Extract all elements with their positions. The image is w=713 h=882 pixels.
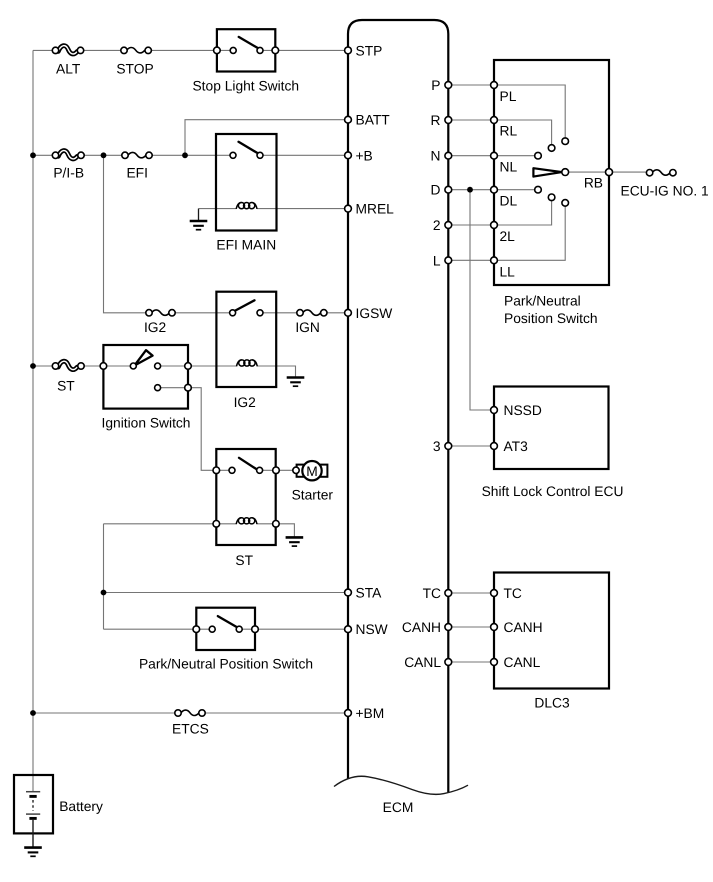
svg-text:Starter: Starter xyxy=(292,488,334,503)
fuse terminals IGN xyxy=(297,310,303,316)
wire: RB row from rotor to ECU-IG fuse xyxy=(569,171,647,173)
svg-text:ETCS: ETCS xyxy=(172,722,209,737)
svg-text:P: P xyxy=(431,78,440,93)
wire: ST relay coil row to ground xyxy=(104,524,295,538)
svg-text:NL: NL xyxy=(500,160,518,175)
wire: STA vertical and STA row to ECM xyxy=(104,524,349,629)
svg-text:IG2: IG2 xyxy=(144,320,166,335)
park/neutral position switch box (NSW) xyxy=(196,608,255,650)
svg-text:STA: STA xyxy=(356,586,383,601)
ground: ST relay coil xyxy=(286,537,304,546)
wire: P row and PL stub xyxy=(448,85,565,138)
fusible link ALT xyxy=(58,46,77,54)
svg-text:STOP: STOP xyxy=(116,62,153,77)
svg-text:CANH: CANH xyxy=(402,620,441,635)
svg-text:TC: TC xyxy=(423,586,441,601)
ground: IG2 relay coil xyxy=(287,378,305,387)
fuse terminals ECU-IG NO. 1 xyxy=(646,170,652,176)
ST relay terminals xyxy=(213,467,220,474)
svg-text:STP: STP xyxy=(356,43,383,58)
svg-text:L: L xyxy=(433,253,441,268)
svg-text:Park/Neutral: Park/Neutral xyxy=(504,293,581,308)
rotary selector contacts PL RL NL DL 2L LL and pivot xyxy=(562,138,569,145)
wire: NSW row through park/neutral position switch xyxy=(104,628,349,630)
starter motor brushes xyxy=(297,465,304,477)
svg-text:+B: +B xyxy=(356,148,373,163)
wire: L row and LL stub xyxy=(448,206,565,260)
wire: D junction down to NSSD xyxy=(470,190,494,410)
fusible link ST xyxy=(58,361,77,369)
park/neutral position switch terminals (NSW) xyxy=(193,626,200,633)
wire: 2 row and 2L stub xyxy=(448,201,551,226)
wire: AT3 row xyxy=(448,445,494,447)
wire: MREL coil row xyxy=(199,208,349,210)
junction node: +B / IG2 branch xyxy=(101,152,107,158)
svg-text:P/I-B: P/I-B xyxy=(53,166,84,181)
svg-text:N: N xyxy=(431,149,441,164)
wire: D row to DL contact xyxy=(448,189,538,191)
svg-text:ST: ST xyxy=(235,553,253,568)
svg-text:Position Switch: Position Switch xyxy=(504,311,598,326)
svg-text:ECU-IG NO. 1: ECU-IG NO. 1 xyxy=(621,183,709,198)
fuse terminals ST xyxy=(52,363,58,369)
ignition switch terminals xyxy=(100,363,107,370)
ECM bottom break wavy line xyxy=(334,776,468,794)
svg-text:IG2: IG2 xyxy=(234,395,256,410)
fuse terminals ETCS xyxy=(175,710,181,716)
svg-text:PL: PL xyxy=(500,89,517,104)
svg-text:TC: TC xyxy=(504,586,522,601)
starter motor terminal xyxy=(293,467,299,473)
svg-text:EFI: EFI xyxy=(126,166,147,181)
IG2 relay coil xyxy=(237,360,258,366)
svg-text:RL: RL xyxy=(500,124,518,139)
junction node: bus / ST row xyxy=(30,363,36,369)
wire: ST row (fusible ST, ignition switch, IG2 coil, to ground) xyxy=(33,366,296,378)
wire: +B row through EFI fuse and EFI MAIN relay xyxy=(33,154,348,156)
svg-text:NSSD: NSSD xyxy=(504,403,542,418)
svg-text:2L: 2L xyxy=(500,229,516,244)
svg-text:LL: LL xyxy=(500,264,516,279)
svg-text:CANL: CANL xyxy=(404,655,441,670)
rotary selector lever xyxy=(533,168,562,176)
svg-text:IGSW: IGSW xyxy=(356,306,393,321)
IG2 relay contacts xyxy=(230,310,236,316)
fuse terminals STOP xyxy=(121,47,127,53)
wire: CANL row xyxy=(448,661,494,663)
stop light switch box xyxy=(217,29,275,71)
DLC3 box xyxy=(494,573,609,689)
stop light switch blade xyxy=(239,37,259,49)
junction node: +B / BATT branch xyxy=(182,152,188,158)
EFI MAIN relay box xyxy=(216,134,277,231)
fuse EFI xyxy=(128,152,146,157)
svg-text:CANH: CANH xyxy=(504,620,543,635)
wire: IGSW row (IG2 relay to IGN fuse to ECM IGSW) xyxy=(172,312,348,314)
wire: N row to NL contact xyxy=(448,155,538,157)
svg-text:Stop Light Switch: Stop Light Switch xyxy=(192,78,299,93)
svg-text:ST: ST xyxy=(57,379,75,394)
ignition switch box xyxy=(103,345,188,409)
EFI MAIN relay contacts xyxy=(230,152,236,158)
fuse ETCS xyxy=(181,710,199,715)
svg-text:ALT: ALT xyxy=(56,62,81,77)
shift lock control ECU terminals xyxy=(491,407,498,414)
wire: BATT branch xyxy=(185,120,348,155)
stop light switch terminals xyxy=(214,47,221,54)
fuse terminals ALT xyxy=(52,47,58,53)
wire: TC row xyxy=(448,592,494,594)
wire: +BM row through ETCS fuse xyxy=(33,712,348,714)
fuse IG2 xyxy=(152,310,170,315)
starter motor body xyxy=(302,461,321,480)
svg-text:Shift Lock Control ECU: Shift Lock Control ECU xyxy=(482,484,624,499)
svg-text:ECM: ECM xyxy=(383,800,414,815)
wire: R row and RL stub xyxy=(448,120,551,145)
fuse ECU-IG NO. 1 xyxy=(652,170,670,175)
park/neutral position switch (transmission) edge terminals xyxy=(491,82,498,89)
svg-text:Park/Neutral Position Switch: Park/Neutral Position Switch xyxy=(139,657,313,672)
wire: ignition switch start contact down to ST relay xyxy=(158,388,217,471)
svg-text:Battery: Battery xyxy=(59,799,103,814)
svg-text:+BM: +BM xyxy=(356,706,385,721)
svg-text:D: D xyxy=(431,183,441,198)
wire: left power bus from battery xyxy=(32,50,34,791)
IG2 relay box xyxy=(216,292,276,387)
svg-text:BATT: BATT xyxy=(356,113,391,128)
EFI MAIN relay coil xyxy=(236,203,257,209)
park/neutral position switch blade (NSW) xyxy=(218,616,236,627)
fuse STOP xyxy=(127,48,145,53)
fuse terminals EFI xyxy=(122,152,128,158)
ECM right edge terminals xyxy=(445,82,452,89)
ECM left edge terminals xyxy=(345,47,352,54)
svg-text:Ignition Switch: Ignition Switch xyxy=(102,415,191,430)
junction node: bus / +BM row xyxy=(30,710,36,716)
svg-text:CANL: CANL xyxy=(504,655,541,670)
svg-text:M: M xyxy=(306,464,318,479)
ST relay coil xyxy=(236,518,257,524)
wire: ST relay switch row to starter motor xyxy=(216,469,297,471)
svg-text:3: 3 xyxy=(433,439,441,454)
wire: CANH row xyxy=(448,626,494,628)
svg-text:DLC3: DLC3 xyxy=(534,695,570,710)
svg-text:MREL: MREL xyxy=(356,202,395,217)
shift lock control ECU box xyxy=(494,387,609,470)
DLC3 terminals xyxy=(491,590,498,597)
svg-text:2: 2 xyxy=(433,218,441,233)
svg-text:AT3: AT3 xyxy=(504,439,529,454)
fuse terminals IG2 xyxy=(146,310,152,316)
fuse IGN xyxy=(303,310,321,315)
IG2 relay switch blade xyxy=(235,300,254,310)
fuse terminals P/I-B xyxy=(52,152,58,158)
junction node: bus / +B row xyxy=(30,152,36,158)
ST relay box xyxy=(216,449,275,545)
ground: EFI MAIN relay coil xyxy=(198,209,200,221)
ECM module outline xyxy=(348,20,448,793)
park/neutral position switch box (transmission side) xyxy=(494,60,609,285)
wire: +B junction down to IG2 fuse row xyxy=(104,155,150,312)
svg-text:EFI MAIN: EFI MAIN xyxy=(216,238,276,253)
EFI MAIN relay switch blade xyxy=(239,142,259,154)
battery plates xyxy=(26,791,40,793)
svg-text:RB: RB xyxy=(584,176,603,191)
ignition switch key lever xyxy=(135,350,153,365)
svg-text:IGN: IGN xyxy=(295,320,320,335)
junction node: D / NSSD branch xyxy=(467,187,473,193)
ST relay switch blade xyxy=(239,458,257,470)
ground: battery negative xyxy=(24,848,42,857)
svg-text:DL: DL xyxy=(500,194,518,209)
svg-text:R: R xyxy=(431,113,441,128)
junction node: STA / ST coil xyxy=(101,590,107,596)
fusible link P/I-B xyxy=(58,151,77,159)
battery box xyxy=(14,775,53,833)
svg-text:NSW: NSW xyxy=(356,622,388,637)
wire: STP row (ALT to Stop Light Switch to ECM STP) xyxy=(33,49,348,51)
